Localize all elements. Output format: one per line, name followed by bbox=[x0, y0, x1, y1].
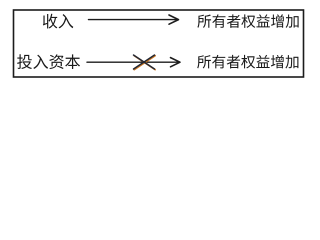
arrow row1 (income -> equity increase) head bbox=[169, 15, 179, 24]
outer frame border bbox=[14, 10, 304, 77]
arrow row2 (invested capital -> equity increase) head bbox=[171, 58, 181, 67]
arrow row2 (invested capital -> equity increase) shaft bbox=[87, 61, 179, 63]
cross-out X mark over arrow bbox=[134, 55, 156, 70]
arrow row1 (income -> equity increase) shaft bbox=[89, 19, 178, 21]
text label: 所有者权益增加 (row1 right) bbox=[197, 14, 298, 28]
text label: 所有者权益增加 (row2 right) bbox=[197, 55, 298, 69]
text label: 收入 (row1 left) bbox=[43, 14, 73, 29]
text label: 投入资本 (row2 left) bbox=[17, 54, 80, 69]
